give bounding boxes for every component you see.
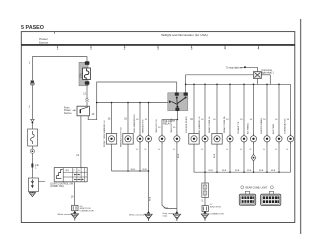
wire gauge labels above lamps right group [136,119,290,129]
svg-text:G: G [201,149,203,151]
G4 side text [210,204,224,215]
svg-text:2.0L: 2.0L [79,72,83,78]
connector drawing B rear comb RH [261,191,281,205]
svg-text:Source: Source [64,112,72,115]
svg-text:G: G [145,149,147,151]
svg-text:2: 2 [90,46,92,50]
wire left rail upper [31,85,33,119]
svg-text:REAR COMB. LIGHT: REAR COMB. LIGHT [246,186,269,189]
lamp column illumination 2 with diamond connector [246,84,256,174]
junction dot B1 left [96,102,98,104]
svg-text:G: G [226,149,228,151]
svg-text:SIDE MARKER RH: SIDE MARKER RH [133,114,136,133]
ground G1 [71,211,78,221]
lamp column front side marker LH [103,102,117,171]
bus BR ground collector [194,171,291,173]
relay output link [162,119,177,121]
from-source text and arrow [64,107,76,115]
lamp column license plate light [185,84,199,173]
svg-text:1: 1 [57,46,59,50]
svg-text:male: male [163,215,169,217]
bullet connector with label [31,163,39,169]
svg-text:CIGARETTE: CIGARETTE [237,121,240,134]
taillight relay body [168,92,188,111]
svg-text:2: 2 [124,46,126,50]
G4 drop wire [204,172,206,183]
G1 side text [79,206,93,213]
svg-text:W-B: W-B [209,170,214,172]
lamp column front side marker RH [133,102,143,172]
svg-text:TAILLIGHT LH: TAILLIGHT LH [155,118,158,133]
fuse box with link [28,129,38,146]
column grid ticks and numbers [57,46,260,51]
wire switch box to light control sw [80,116,82,168]
bus BL ground collector [112,170,149,172]
lamp column taillight LH [155,118,177,209]
wire into fuse box [31,123,33,129]
bus B1 taillight feed [97,102,169,104]
relay name text [163,120,175,126]
lamp column rear combination LH [208,84,222,174]
relay top-left wire to L1 [176,82,178,93]
connector box G4 [202,206,208,212]
svg-text:4: 4 [224,46,226,50]
svg-text:LICENSE PLATE: LICENSE PLATE [185,116,188,133]
lamp column taillight RH [170,118,180,212]
lamp column rear side marker LH [198,84,208,173]
svg-text:W-B: W-B [259,170,264,172]
rear comb light caption [241,186,273,190]
lamp column illumination 5 [283,84,293,172]
ground G3 [173,211,180,221]
svg-text:RELAY: RELAY [163,122,171,125]
relay top-right wire up [185,75,187,93]
wire fusible link to switch box [86,85,88,99]
svg-text:G: G [158,149,160,151]
svg-text:W-B: W-B [142,169,147,171]
svg-text:4: 4 [258,46,260,50]
svg-text:G: G [287,149,289,151]
stoplight tap with dot [226,66,258,71]
svg-text:G: G [275,149,277,151]
W-B labels BR [209,170,276,172]
svg-text:5 PASEO: 5 PASEO [21,25,44,31]
circle dot connector [30,146,34,163]
light control switch table [54,168,87,182]
junction connector strip [202,183,209,198]
svg-text:G: G [173,149,175,151]
tail switch box [77,106,89,116]
connector pair symbol [31,119,35,123]
inline connector arcs [85,99,88,102]
svg-text:W-B: W-B [271,170,276,172]
svg-text:JUNCTION: JUNCTION [210,206,221,208]
lamp column illumination 4 [272,84,282,174]
svg-text:W-B: W-B [247,170,252,172]
svg-text:G: G [136,149,138,151]
svg-text:W-B: W-B [164,207,169,209]
ground left rail [29,192,35,197]
svg-text:A/C PANEL: A/C PANEL [246,122,249,134]
svg-text:W-B: W-B [178,153,180,158]
svg-text:G: G [263,149,265,151]
fusible link 2.0L gray body [79,61,91,86]
wire gauge labels under lamps [136,149,289,151]
svg-text:G: G [240,149,242,151]
ground G4 [201,211,208,221]
header heavy divider [21,44,295,46]
bus B2 illumination feed [186,83,291,85]
wire table to G1 [74,182,76,206]
wire battery feed horizontal top [32,57,87,80]
lamp column illumination 3 [260,84,270,174]
svg-text:FRONT SIDE MARKER LH: FRONT SIDE MARKER LH [103,120,106,147]
svg-text:(COMB. SW): (COMB. SW) [50,186,64,188]
svg-text:W-B: W-B [150,196,152,201]
relay bottom wire [176,111,178,120]
svg-text:CONNECTOR: CONNECTOR [79,211,93,213]
junction dot G4 tap [204,171,206,173]
grommet component on L2 [253,72,261,85]
ground G2 [145,211,152,221]
wire box right return [88,82,177,120]
svg-text:Source: Source [39,40,49,44]
lamp column illumination 1 [237,84,247,174]
page edge line [300,19,302,234]
svg-text:To stop light sw: To stop light sw [226,66,243,69]
feed line L2 [186,74,254,76]
svg-text:3: 3 [157,46,159,50]
ground G2 drop [148,171,150,212]
connector on battery wire [30,80,34,85]
svg-text:TAILLIGHT RH: TAILLIGHT RH [170,118,173,133]
svg-text:W-B: W-B [131,169,136,171]
svg-text:light relay 1: light relay 1 [262,72,275,75]
lamp column parking light LH [119,102,133,172]
svg-text:White connector male: White connector male [129,214,151,217]
svg-text:3: 3 [191,46,193,50]
wire strip to connector box [204,198,206,206]
svg-text:PARKING RH: PARKING RH [141,119,144,133]
connector box G1 [72,205,78,210]
grommet label text [262,69,275,75]
svg-text:REAR COMB LH: REAR COMB LH [208,116,211,133]
svg-text:W-B: W-B [214,153,216,158]
svg-text:W-B: W-B [222,170,227,172]
lamp column rear combination RH [223,84,233,174]
battery box with arrows [28,178,45,192]
svg-text:PARKING LIGHT LH: PARKING LIGHT LH [119,126,122,147]
svg-text:ASHTRAY: ASHTRAY [272,123,275,134]
svg-text:Taillight and Illumination (fo: Taillight and Illumination (for USA) [161,33,208,37]
connector drawing A rear comb LH [239,191,255,205]
border frame [21,32,295,223]
header cell tick [54,32,56,34]
wire to battery box [31,167,33,178]
svg-text:G: G [250,149,252,151]
svg-text:W-B: W-B [235,170,240,172]
svg-text:CONNECTOR: CONNECTOR [210,213,224,215]
lamp column parking light RH [141,102,151,171]
